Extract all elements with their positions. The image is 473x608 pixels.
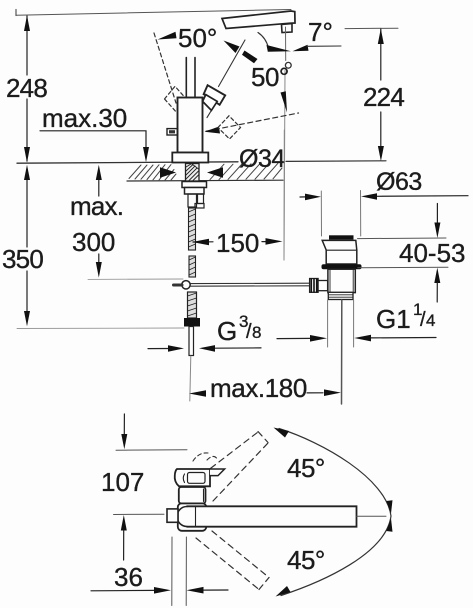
top reference line (max height) [16,10,291,16]
arrowhead 248 bottom [24,147,30,163]
drain flange step line [326,249,357,251]
plan handle knob [175,469,210,486]
arrowhead G3/8 left [168,345,184,352]
dimension 107 upper line [123,414,125,434]
arrowhead pointing down to lowered axis [281,91,288,112]
plan handle knob inner arc [183,474,184,483]
svg-text:36: 36 [114,562,143,592]
G1 1/4 extension line right [353,300,355,347]
svg-text:max.: max. [70,191,123,221]
faucet body [178,98,203,153]
dimension 224 vertical line [380,29,382,147]
40-53 dimension vertical upper [436,204,438,224]
plan handle knob inner [188,473,206,484]
plan spout left round end [177,507,187,527]
arrowhead arc bottom [276,586,291,597]
arrowhead right of centerline [293,45,309,52]
plan spout bar [187,506,357,526]
arrowhead max.180 right [324,389,341,396]
max.180 dimension line [307,392,323,394]
arc 50 lower [258,33,268,48]
7 degree horizontal reference line [307,45,341,47]
drain body [328,269,355,292]
lever knob solid diamond [204,85,226,105]
arrowhead arc top [274,428,290,438]
label G1 1/4 [376,300,435,334]
plan left tab [167,509,178,522]
arrowhead diameter 63 right [361,193,377,200]
lever knob inner diamond [203,95,218,111]
plan dashed spout upper right [194,432,268,502]
rod end nub [174,284,183,287]
arrowhead lowered axis at body [205,127,221,134]
drain thread block [328,292,353,299]
G1 1/4 dimension line [277,338,436,339]
svg-text:40-53: 40-53 [399,238,466,268]
diameter 63 dimension line [300,196,468,197]
drain knob knurled [310,279,319,293]
36 dimension line left [91,589,154,591]
107 reference line top [116,449,187,452]
arrowhead diameter 63 left [305,194,321,201]
dimension 107 lower line [123,531,125,561]
drain body inner walls [329,270,331,292]
handle dashed square lowered position [218,116,241,139]
dimension 150 [193,241,270,243]
40-53 top reference line [358,237,447,240]
svg-text:Ø34: Ø34 [239,145,285,173]
36 dimension line right [204,589,229,591]
lever stem lines [186,58,195,98]
faucet spout [222,11,295,29]
outlet centerline lower [284,71,285,261]
lower hose knurled [188,292,197,318]
arc mid arrow upper [386,500,392,513]
svg-text:45°: 45° [287,453,325,483]
svg-text:248: 248 [6,73,47,103]
handle axis line solid [219,40,246,87]
drain knob knurl stripes [311,279,316,292]
body side tab [167,129,178,135]
svg-text:Ø63: Ø63 [376,168,422,196]
supply tube right cap [195,204,204,209]
svg-text:50°: 50° [251,62,289,92]
plan body mid section [179,487,206,503]
arrowhead 350 top [24,165,30,180]
107 reference line bottom [114,513,165,515]
supply tube left [188,194,197,207]
drain extension line 150 right [283,130,285,260]
plan spout inner tick [195,507,197,527]
rod hatch texture [189,209,196,275]
arrowhead 224 bottom [378,146,384,161]
outlet centerline circle [285,62,291,68]
svg-text:G1: G1 [376,304,411,334]
arrowhead 150 left [192,239,209,246]
pop-up rod upper hatched [189,208,196,277]
drain knob stem [318,281,328,291]
countertop deck top line [17,162,238,163]
diameter 63 extension line right [360,191,362,237]
40-53 bottom reference line [358,266,448,269]
svg-text:300: 300 [72,227,115,257]
plan lever arm [210,469,225,476]
plan dashed spout lower right [196,531,269,590]
deck section hatching right [210,163,282,179]
arrowhead max.300 top [96,165,102,180]
countertop deck top line right extension [286,160,386,163]
G3/8 nipple [189,327,194,356]
arrowhead max.300 bottom [96,262,102,278]
arrowhead 50 lower toward centerline [267,45,292,52]
lowered handle axis dashed [206,113,299,131]
40-53 dimension vertical lower [436,283,438,302]
mounting shank through deck [186,164,200,182]
plan swivel arc [279,429,391,596]
deck section hatching left [129,165,176,180]
handle axis line below handle [207,111,211,118]
arrowhead 50 upper right (arc end) [224,41,240,54]
dimension 248 vertical line [26,16,28,161]
arrowhead 40-53 bottom [434,268,440,283]
dimension 224 top tick [345,27,398,29]
plan body mid inner edge [203,489,205,502]
arrowhead 36 right [187,587,204,594]
svg-text:G: G [217,316,237,346]
handle dashed square left position [165,86,187,111]
drain plug top bar [329,235,354,239]
plan body bottom section [178,503,207,531]
dimension 350 vertical line [26,169,28,312]
36 extension line right [185,537,187,606]
handle axis dashed left [154,33,176,103]
horseshoe washer [182,182,207,188]
hose connection nut [184,318,200,327]
svg-text:45°: 45° [287,545,325,575]
mounting nut [185,188,205,195]
svg-text:224: 224 [363,82,404,112]
drain flange [322,240,357,264]
svg-text:max.30: max.30 [42,103,127,133]
arrowhead on handle axis [242,51,258,64]
faucet base plate [172,153,208,163]
rod ball joint [182,281,190,289]
pop-up rod horizontal [191,283,310,286]
extension line at hose end level [17,327,184,330]
36 extension line left [171,537,173,606]
label G 3/8 [217,312,261,346]
supply tube right [198,194,204,204]
svg-text:50°: 50° [178,23,217,53]
arc mid arrow lower [386,519,392,532]
countertop deck bottom line [127,179,283,182]
arrowhead max.30 [143,147,149,162]
arrowhead 50 upper left [158,32,177,40]
svg-text:4: 4 [426,311,435,330]
extension line at hose reference [88,278,183,280]
shank thread hatch [186,164,199,181]
deck section arrow right [207,167,223,177]
faucet centerline below [190,356,191,401]
drain thread lines [329,295,354,297]
handle dashed arcs above (plan) [193,453,217,461]
arrowhead 224 top [378,29,384,44]
arrowhead 150 right [266,238,283,245]
plan centerline stub right [357,515,387,517]
arrowhead 248 top [24,15,30,31]
arrowhead 350 bottom [24,311,30,326]
svg-text:107: 107 [101,467,144,497]
top reference line start tick [15,10,17,16]
G 3/8 dimension line [148,347,261,350]
spout aerator outlet [282,24,293,33]
arrowhead 40-53 top [434,223,440,239]
diameter 63 extension line left [320,191,322,236]
drain centerline [341,300,343,404]
outlet centerline [285,27,287,61]
svg-text:150: 150 [216,228,259,258]
arrowhead 107 bottom [121,515,127,531]
svg-text:8: 8 [252,323,261,342]
drain seal ring [322,264,362,269]
svg-text:7°: 7° [308,17,333,47]
deck section arrow left [160,167,176,177]
arrowhead 36 left [154,587,171,594]
leader line max.30 [40,131,146,148]
hose knurl texture [188,293,197,316]
arrowhead G3/8 right [199,345,215,352]
body side tab mark [169,130,175,133]
arrowhead max.180 left [189,390,206,397]
svg-text:max.180: max.180 [210,373,307,403]
arrowhead 107 top [121,434,127,449]
svg-text:350: 350 [2,244,43,274]
arrowhead G1 1/4 left [310,335,327,342]
dimension max.300 vertical line [98,169,100,272]
G1 1/4 extension line left [327,300,329,347]
arrowhead G1 1/4 right [354,335,371,342]
